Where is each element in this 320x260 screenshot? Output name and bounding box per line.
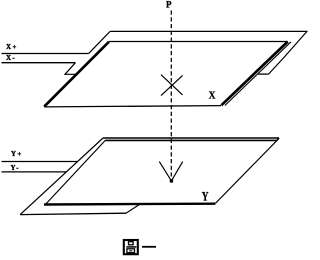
right plate X (thick edge-on) [221,42,287,106]
svg-text:P: P [166,0,172,9]
plate pair X: outer right edge lower [225,42,291,106]
wire X+ [2,53,89,55]
left plate X (thick edge-on) [44,42,109,107]
beam axis dashed line from P [170,11,172,177]
node: beam spot cross [161,75,183,96]
svg-text:X-: X- [6,54,16,62]
svg-text:Y: Y [202,189,209,203]
svg-text:Y-: Y- [11,164,20,172]
plate pair Y: far plate edge line 2 [105,138,279,140]
plate pair X: bottom edge [44,106,221,107]
plate pair Y: outer bottom jog [126,204,140,213]
caption glyph 圖 [122,238,140,256]
plate pair Y: far plate edge line 1 [103,137,279,139]
wire: X- jog to left plate [65,63,77,75]
beam arrow head [159,162,182,181]
wire Y- [2,171,67,173]
plate pair Y: right edge [215,140,277,203]
plate pair X: near top edge line [109,41,288,43]
svg-text:Y+: Y+ [11,150,23,158]
plate pair X: outer right edge jog [258,73,268,75]
plate pair Y: left edge inner [46,140,105,203]
plate pair Y: left edge outer [20,138,103,215]
near plate Y (thick bottom edge) [44,202,215,205]
plate pair X: outer right edge upper [269,31,308,74]
wire: X+ lead diagonal to top edge [89,31,110,53]
svg-text:X+: X+ [6,43,18,51]
plate pair Y: outer bottom edge [20,213,126,214]
wire X- [2,62,76,64]
caption glyph 一 [141,244,159,250]
wire Y+ [2,161,78,163]
svg-text:X: X [209,90,216,102]
plate pair X: far plate top edge [110,30,308,32]
beam arrow apex dot [170,179,173,182]
